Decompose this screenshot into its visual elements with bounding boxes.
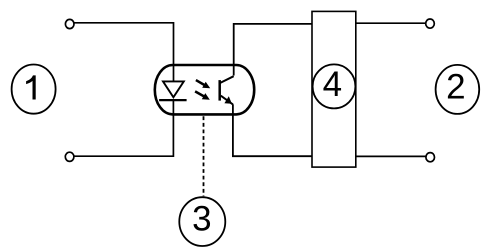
svg-text:3: 3 (192, 200, 211, 239)
svg-text:2: 2 (446, 68, 465, 107)
svg-text:4: 4 (323, 65, 342, 104)
